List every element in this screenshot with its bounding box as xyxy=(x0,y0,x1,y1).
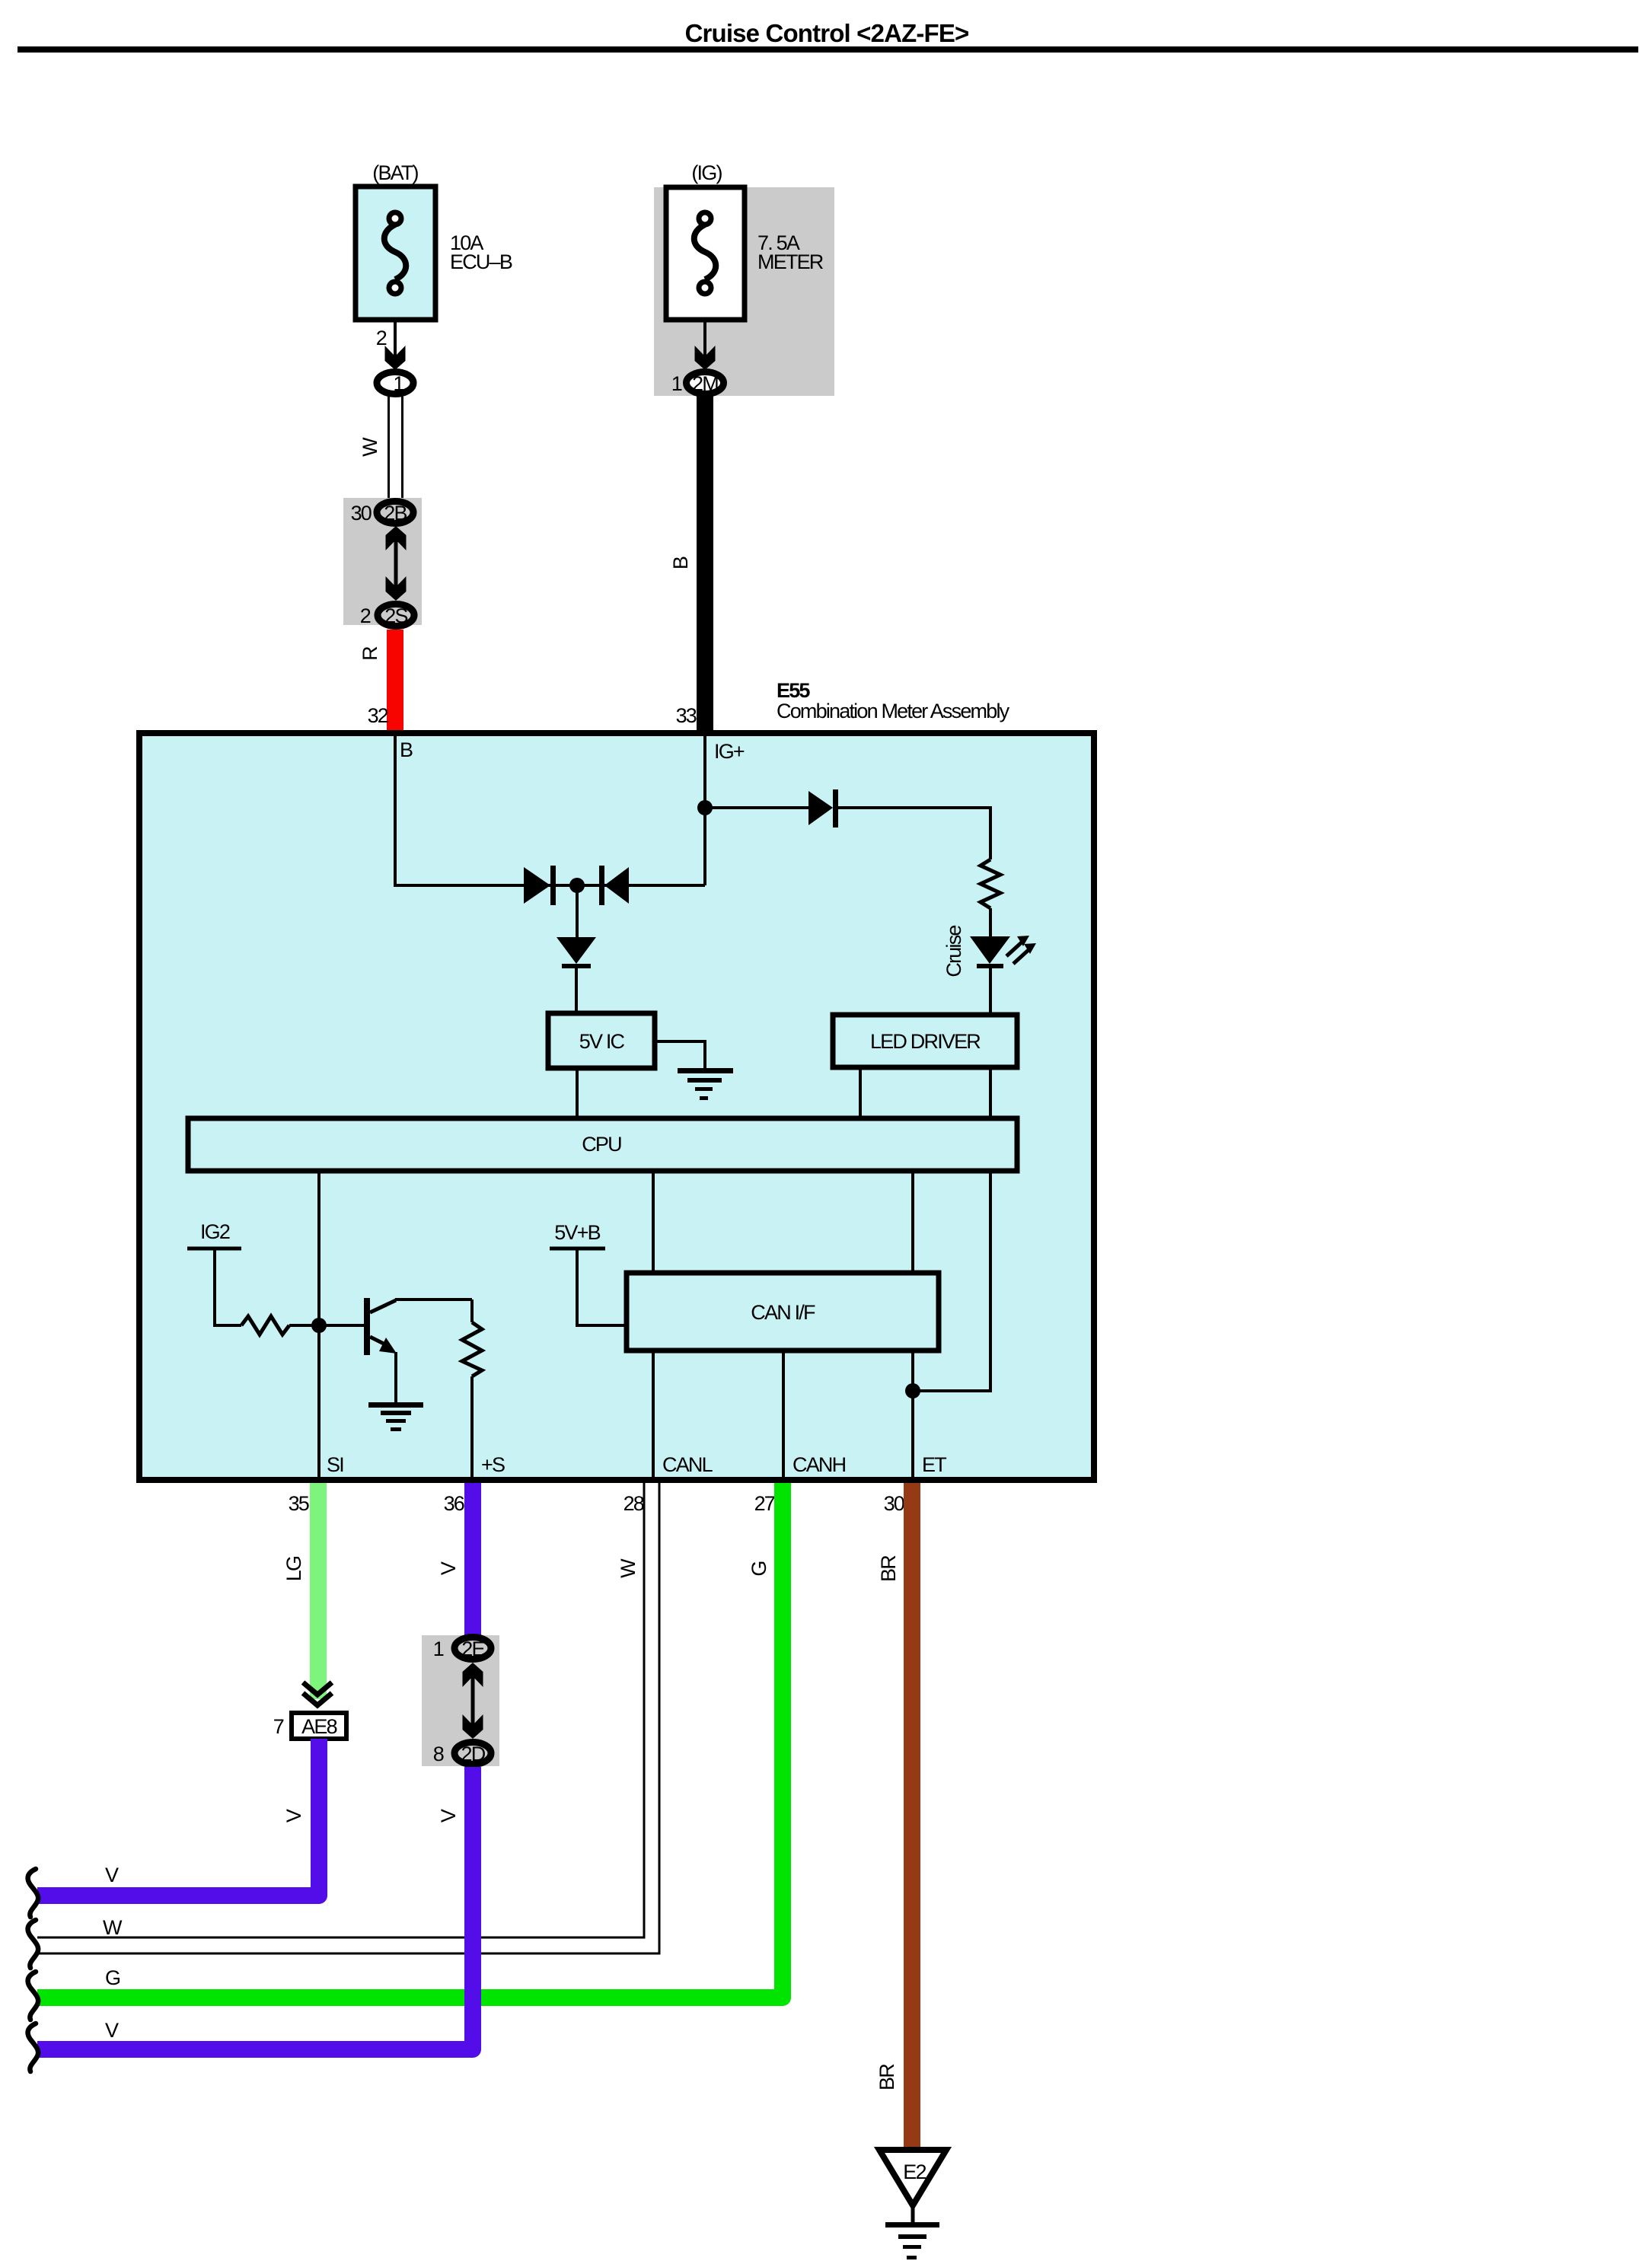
connector AE8 xyxy=(292,1713,346,1739)
continuation squiggle V upper xyxy=(28,1869,39,1917)
LED DRIVER block xyxy=(833,1015,1017,1067)
CPU block xyxy=(188,1118,1017,1171)
wire CANH xyxy=(782,1351,785,1480)
5V+B supply xyxy=(550,1221,627,1325)
double arrow between 2E and 2D xyxy=(463,1663,483,1739)
wire D3 to 5V IC xyxy=(575,968,578,1013)
wire CPU to CAN I/F left xyxy=(652,1171,655,1273)
svg-text:BR: BR xyxy=(875,2064,898,2090)
continuation squiggle V lower xyxy=(28,2023,39,2071)
svg-text:SI: SI xyxy=(327,1453,343,1476)
svg-text:(BAT): (BAT) xyxy=(372,161,418,184)
E55 Combination Meter Assembly box xyxy=(139,733,1094,1480)
svg-text:5V+B: 5V+B xyxy=(554,1221,600,1244)
svg-text:2E: 2E xyxy=(461,1638,484,1660)
wire junction to diode D3 xyxy=(576,885,579,937)
svg-text:1: 1 xyxy=(433,1638,444,1660)
svg-text:CAN I/F: CAN I/F xyxy=(751,1301,815,1324)
svg-text:V: V xyxy=(105,1864,119,1886)
diode D2 xyxy=(599,866,629,905)
wire LED DRIVER to CPU right xyxy=(989,1067,992,1118)
ground E2 xyxy=(879,2150,946,2259)
svg-text:AE8: AE8 xyxy=(301,1715,336,1738)
wire 5V IC to CPU xyxy=(576,1068,579,1118)
svg-text:(IG): (IG) xyxy=(691,161,722,184)
svg-text:8: 8 xyxy=(433,1743,444,1765)
svg-text:7: 7 xyxy=(273,1715,284,1738)
IG2 supply xyxy=(187,1220,241,1325)
wire R (red) xyxy=(359,630,403,732)
gray block METER fuse area xyxy=(654,187,834,396)
node junction ET xyxy=(905,1383,920,1398)
wire fuse METER to connector 2M xyxy=(703,320,706,358)
node junction SI xyxy=(311,1318,327,1333)
svg-text:CPU: CPU xyxy=(582,1133,621,1156)
CAN I/F block xyxy=(627,1273,939,1351)
wire LG xyxy=(282,1483,327,1699)
resistor R1 xyxy=(981,859,1000,908)
svg-text:30: 30 xyxy=(884,1492,904,1515)
wire V (+S upper) xyxy=(437,1483,481,1635)
svg-text:B: B xyxy=(669,556,692,569)
wire IG+ vertical xyxy=(703,732,706,885)
connector 2B xyxy=(377,502,413,525)
arrow into connector 2M xyxy=(695,346,716,370)
node junction B/IG xyxy=(569,878,585,893)
svg-text:W: W xyxy=(103,1916,123,1939)
svg-text:36: 36 xyxy=(444,1492,464,1515)
svg-text:ECU–B: ECU–B xyxy=(450,250,512,273)
svg-text:B: B xyxy=(400,738,413,761)
svg-text:W: W xyxy=(617,1558,639,1578)
title rule xyxy=(18,46,1638,53)
svg-text:G: G xyxy=(105,1966,120,1989)
E55 component name xyxy=(777,679,1010,722)
wire CPU to CAN I/F right xyxy=(911,1171,914,1273)
wire V (SI lower) xyxy=(37,1739,319,1896)
svg-text:IG2: IG2 xyxy=(200,1220,230,1243)
wire fuse ECU-B to connector 1 xyxy=(394,320,397,358)
svg-text:Cruise: Cruise xyxy=(942,926,965,977)
svg-text:V: V xyxy=(282,1809,305,1823)
svg-text:Combination Meter Assembly: Combination Meter Assembly xyxy=(777,700,1010,722)
connector 2S xyxy=(378,604,414,628)
wire G (CANH) xyxy=(37,1483,783,1998)
wire CANL xyxy=(652,1351,655,1480)
fuse METER (IG) xyxy=(666,161,824,320)
wire R2 to base xyxy=(289,1324,364,1327)
svg-text:CANH: CANH xyxy=(793,1453,846,1476)
wire LED DRIVER to CPU left xyxy=(859,1067,862,1118)
wire collector down xyxy=(470,1300,474,1322)
continuation squiggle G xyxy=(28,1972,39,2020)
ground G1 xyxy=(678,1068,733,1100)
svg-text:V: V xyxy=(105,2019,119,2042)
connector 2D xyxy=(454,1743,491,1766)
wire IG+ to diode D4 xyxy=(705,806,808,809)
LED Cruise xyxy=(942,926,1036,977)
wire between diodes xyxy=(524,884,705,887)
svg-text:E55: E55 xyxy=(777,679,810,702)
wire CPU to SI pin xyxy=(317,1171,321,1480)
wire emitter to ground xyxy=(394,1352,397,1403)
svg-text:2B: 2B xyxy=(384,502,407,525)
svg-text:CANL: CANL xyxy=(662,1453,713,1476)
double arrow between 2B and 2S xyxy=(386,526,407,601)
svg-text:E2: E2 xyxy=(903,2161,926,2183)
wire collector xyxy=(395,1298,472,1301)
svg-text:2D: 2D xyxy=(461,1743,486,1765)
svg-text:V: V xyxy=(437,1809,460,1823)
continuation squiggle W xyxy=(28,1920,39,1968)
transistor Q1 xyxy=(364,1298,397,1355)
svg-text:1: 1 xyxy=(671,372,682,395)
junction block 2B/2S gray background xyxy=(343,498,422,625)
wire ET xyxy=(911,1351,914,1480)
resistor R2 xyxy=(241,1316,289,1335)
wire D4 to resistor xyxy=(838,808,990,859)
wire W (CANL) xyxy=(37,1483,659,1953)
double chevron arrow into AE8 xyxy=(303,1682,332,1705)
svg-text:Cruise Control <2AZ-FE>: Cruise Control <2AZ-FE> xyxy=(685,19,969,47)
wire B net xyxy=(395,732,524,885)
junction block 2E/2D gray background xyxy=(422,1635,499,1766)
svg-text:1: 1 xyxy=(393,372,403,395)
wire ET branch xyxy=(913,1171,990,1391)
ground G2 xyxy=(368,1402,423,1431)
connector 2E xyxy=(454,1638,491,1661)
arrow into connector 1 xyxy=(385,346,406,370)
svg-text:IG+: IG+ xyxy=(714,740,745,763)
svg-text:G: G xyxy=(748,1561,770,1576)
diode D1 xyxy=(524,866,556,905)
svg-text:LED DRIVER: LED DRIVER xyxy=(870,1030,981,1053)
node junction IG+ xyxy=(697,800,713,815)
svg-text:W: W xyxy=(359,437,381,457)
diode D4 xyxy=(808,789,838,828)
svg-text:LG: LG xyxy=(282,1557,305,1581)
svg-text:27: 27 xyxy=(754,1492,775,1515)
svg-text:2: 2 xyxy=(360,604,371,627)
wire W (white) xyxy=(359,397,403,499)
svg-text:R: R xyxy=(359,646,381,661)
5V IC block xyxy=(548,1013,655,1068)
svg-text:32: 32 xyxy=(368,704,388,727)
svg-text:V: V xyxy=(437,1561,460,1575)
resistor R3 xyxy=(462,1322,482,1376)
svg-text:35: 35 xyxy=(289,1492,309,1515)
wire LED to LED DRIVER xyxy=(989,968,992,1015)
wire 5V IC to ground xyxy=(655,1041,705,1069)
connector 2M xyxy=(687,372,724,396)
wire V (+S lower) xyxy=(37,1767,473,2049)
svg-text:2S: 2S xyxy=(384,604,407,627)
svg-text:2M: 2M xyxy=(692,372,718,395)
fuse ECU-B (BAT) xyxy=(356,161,512,320)
title xyxy=(685,19,969,47)
svg-text:33: 33 xyxy=(676,704,697,727)
connector 1 xyxy=(377,372,413,396)
svg-text:30: 30 xyxy=(351,502,372,525)
wire B (black) xyxy=(669,396,713,732)
svg-text:+S: +S xyxy=(481,1453,505,1476)
svg-text:5V IC: 5V IC xyxy=(579,1030,625,1053)
diode D3 xyxy=(557,937,596,968)
svg-text:BR: BR xyxy=(877,1555,900,1582)
svg-text:METER: METER xyxy=(757,250,824,273)
svg-text:28: 28 xyxy=(623,1492,644,1515)
wire BR xyxy=(875,1483,920,2150)
wire R3 to +S pin xyxy=(470,1376,474,1480)
svg-text:ET: ET xyxy=(922,1453,946,1476)
wire R1 to LED xyxy=(989,908,992,936)
